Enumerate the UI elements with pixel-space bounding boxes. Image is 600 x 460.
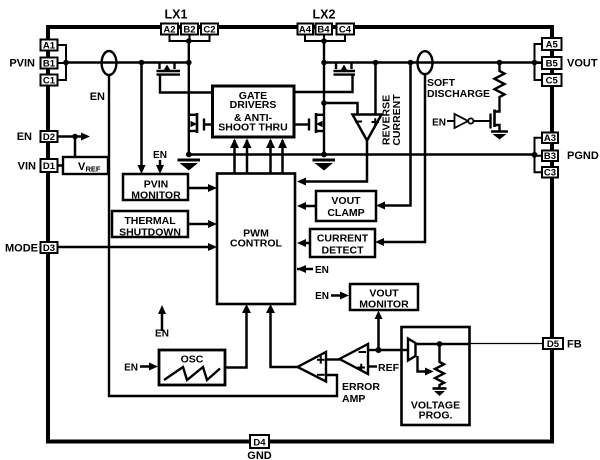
node LX1 bracket junction <box>186 38 192 44</box>
svg-text:DETECT: DETECT <box>322 245 365 257</box>
op-amp reverse current comparator <box>353 115 382 141</box>
block VREF <box>63 157 108 174</box>
arrow gate drive 4 <box>278 139 287 149</box>
arrow EN into PWM right <box>297 265 313 273</box>
inverter soft discharge <box>447 114 491 128</box>
wire LX1 vertical <box>188 41 190 155</box>
svg-text:LX1: LX1 <box>165 8 188 22</box>
wire into trapezoid <box>402 349 410 351</box>
node LX2 bracket junction <box>321 38 327 44</box>
node vout clamp tap <box>408 60 414 66</box>
arrow gate drive 3 <box>266 139 275 149</box>
ground LX1 <box>178 160 201 171</box>
wire gate drive 4 <box>281 140 284 174</box>
svg-text:B4: B4 <box>317 25 330 36</box>
wire PVIN monitor sense <box>140 63 143 169</box>
op-amp error amp stage2 <box>298 352 327 382</box>
svg-text:D4: D4 <box>253 437 266 448</box>
pin C2 <box>201 24 218 36</box>
svg-text:OSC: OSC <box>181 354 204 366</box>
node PGND bracket junction <box>532 152 538 158</box>
svg-text:C4: C4 <box>339 25 352 36</box>
svg-text:C2: C2 <box>203 25 215 36</box>
wire D2 EN <box>58 135 84 138</box>
arrow up into VOUT MONITOR <box>375 311 383 320</box>
wire LX2 to comparator minus <box>324 103 358 115</box>
wire OSC to PWM <box>225 308 247 368</box>
svg-text:C3: C3 <box>544 168 556 179</box>
bracket A3B3C3 <box>535 138 543 173</box>
node LX1 top junction <box>186 60 192 66</box>
wire stage1 minus input <box>368 349 379 351</box>
svg-text:D1: D1 <box>43 161 56 172</box>
arrow into PVIN MONITOR (sense) <box>138 165 146 174</box>
arrow EN into VOUT MONITOR <box>331 292 349 300</box>
svg-text:SHUTDOWN: SHUTDOWN <box>119 227 181 239</box>
bracket A2B2C2 <box>170 35 210 42</box>
svg-text:CONTROL: CONTROL <box>230 238 282 250</box>
svg-text:ERROR: ERROR <box>342 381 380 393</box>
pin D5 <box>543 338 563 350</box>
arrow PVIN MONITOR out <box>208 184 217 192</box>
svg-text:EN: EN <box>124 363 138 374</box>
svg-text:MONITOR: MONITOR <box>359 299 409 311</box>
svg-text:MODE: MODE <box>5 243 38 255</box>
svg-text:GND: GND <box>247 450 272 460</box>
svg-text:CLAMP: CLAMP <box>327 207 364 219</box>
wire trapezoid to resistor node <box>416 343 470 345</box>
wire gate drive 2 <box>246 140 249 174</box>
block VOLTAGE PROG <box>402 327 470 425</box>
arrow VOUT CLAMP out <box>297 202 306 210</box>
svg-text:EN: EN <box>315 291 329 302</box>
ground soft discharge <box>491 132 508 140</box>
wire vout clamp sense <box>380 63 411 206</box>
pin D4 <box>250 435 269 448</box>
bracket A1B1C1 <box>58 45 67 80</box>
transistor Q1 high-side phase1 <box>157 63 213 93</box>
transistor Q3 high-side phase2 <box>294 63 355 93</box>
wire hop ellipse current detect <box>418 51 433 74</box>
transistor Q5 soft discharge <box>491 99 500 131</box>
block PVIN MONITOR <box>123 174 188 202</box>
wire VOUT to comparator plus <box>374 63 377 116</box>
svg-text:D2: D2 <box>43 132 55 143</box>
node LX2 ground junction <box>321 152 327 158</box>
wire PVIN rail <box>66 61 189 64</box>
node PVIN monitor tap <box>139 60 145 66</box>
svg-text:B5: B5 <box>546 59 559 70</box>
pin B5 <box>542 57 562 70</box>
arrow gate drive 2 <box>243 139 252 149</box>
arrow EN right <box>81 133 90 141</box>
block VOUT MONITOR <box>350 284 418 311</box>
wire FB to VOUT MONITOR <box>377 315 380 350</box>
svg-text:EN: EN <box>315 265 329 276</box>
wire THERMAL to PWM <box>188 223 210 226</box>
svg-text:B3: B3 <box>544 151 556 162</box>
pin B1 <box>41 58 58 70</box>
arrow gate drive 1 <box>230 139 239 149</box>
pin A4 <box>298 24 314 36</box>
svg-text:A2: A2 <box>163 25 175 36</box>
svg-text:A3: A3 <box>544 133 556 144</box>
svg-text:CURRENT: CURRENT <box>391 94 403 146</box>
svg-text:FB: FB <box>567 339 582 351</box>
ground LX2 <box>313 160 336 171</box>
arrow EN into OSC <box>140 363 158 371</box>
svg-text:D5: D5 <box>547 339 560 350</box>
wire PVIN MONITOR to PWM <box>188 187 210 190</box>
svg-text:LX2: LX2 <box>313 8 336 22</box>
wire PGND bus <box>189 153 535 156</box>
svg-text:REF: REF <box>86 165 101 174</box>
svg-text:C1: C1 <box>43 76 56 87</box>
wire D2 to VREF <box>74 137 77 158</box>
wire VOUT CLAMP to PWM <box>300 205 316 208</box>
svg-text:AMP: AMP <box>342 393 365 405</box>
wire current detect sense <box>379 74 425 242</box>
arrow CURRENT DETECT out <box>297 239 306 247</box>
pin A5 <box>542 38 562 51</box>
wire comparator output to PWM <box>300 141 367 182</box>
svg-text:PROG.: PROG. <box>419 410 453 422</box>
pin A2 <box>161 24 178 36</box>
svg-text:PGND: PGND <box>567 150 599 162</box>
pin B2 <box>181 24 198 36</box>
pin D2 <box>41 131 58 143</box>
wire LX2 vertical <box>323 41 325 155</box>
svg-text:B1: B1 <box>43 59 56 70</box>
node resistor top <box>437 341 443 347</box>
svg-text:EN: EN <box>17 131 32 143</box>
transistor Q2 low-side phase1 <box>189 113 213 133</box>
svg-text:VIN: VIN <box>18 161 36 173</box>
block CURRENT DETECT <box>310 229 375 257</box>
block VOUT CLAMP <box>316 191 376 221</box>
pin D3 <box>41 242 58 254</box>
arrow reverse current into PWM <box>297 178 306 186</box>
wire MODE to PWM <box>58 246 211 249</box>
pin A3 <box>542 133 558 145</box>
op-amp error amp stage1 <box>340 344 369 374</box>
svg-text:EN: EN <box>153 150 167 161</box>
svg-text:EN: EN <box>432 118 446 129</box>
bracket A4B4C4 <box>305 35 345 42</box>
pin C5 <box>542 74 562 87</box>
chip outer border <box>48 27 552 442</box>
wire EN vertical long <box>109 75 337 396</box>
svg-text:DRIVERS: DRIVERS <box>230 99 277 111</box>
wire FB thin <box>470 343 544 345</box>
wire CURRENT DETECT to PWM <box>300 242 310 245</box>
block THERMAL SHUTDOWN <box>112 211 188 239</box>
svg-text:A1: A1 <box>43 41 56 52</box>
wire FB junction to voltage prog <box>379 349 410 351</box>
svg-text:DISCHARGE: DISCHARGE <box>427 88 490 100</box>
node reverse current + tap <box>373 60 379 66</box>
wire gate drive 3 <box>269 140 272 174</box>
pin D1 <box>41 159 58 172</box>
svg-text:SHOOT THRU: SHOOT THRU <box>218 122 287 134</box>
label SOFT DISCHARGE <box>427 77 490 100</box>
wire D1 to VREF <box>58 164 65 167</box>
wire hop ellipse EN <box>102 51 117 75</box>
ground voltage prog <box>433 389 447 397</box>
block OSC <box>159 350 225 385</box>
svg-text:EN: EN <box>155 329 169 340</box>
mux trapezoid voltage prog <box>408 339 416 361</box>
arrow error amp into PWM bottom <box>266 304 275 313</box>
label REVERSE CURRENT <box>381 94 404 146</box>
pin C1 <box>41 75 58 87</box>
arrow EN up standalone <box>158 305 166 331</box>
pin C3 <box>542 167 558 179</box>
pin A1 <box>41 40 58 52</box>
wire VOUT rail <box>324 61 542 64</box>
svg-text:VOUT: VOUT <box>567 58 598 70</box>
wire gate drive 1 <box>233 140 236 174</box>
node LX1 ground junction <box>186 152 192 158</box>
arrow OSC into PWM bottom <box>242 304 251 313</box>
svg-text:CURRENT: CURRENT <box>317 233 369 245</box>
wire stage1 to stage2 <box>326 358 340 360</box>
svg-text:A4: A4 <box>299 25 312 36</box>
node soft discharge tap <box>497 60 503 66</box>
svg-text:VOUT: VOUT <box>331 195 361 207</box>
node LX2 comparator tap <box>321 100 327 106</box>
arrow EN into PVIN MONITOR <box>156 160 164 174</box>
arrow MODE into PWM <box>208 243 217 251</box>
block PWM CONTROL <box>217 174 295 305</box>
svg-text:PVIN: PVIN <box>9 58 35 70</box>
pin B4 <box>316 24 333 36</box>
bracket A5B5C5 <box>535 44 543 80</box>
pin B3 <box>542 151 558 163</box>
label ERROR AMP <box>342 381 380 405</box>
svg-text:B2: B2 <box>183 25 195 36</box>
pin C4 <box>337 24 355 36</box>
wire REF input <box>368 365 377 367</box>
node PVIN-bracket junction <box>63 60 69 66</box>
arrow THERMAL out <box>208 220 217 228</box>
resistor voltage prog <box>435 344 444 388</box>
arrow into VOUT CLAMP <box>376 202 385 210</box>
node D2 junction <box>72 134 78 140</box>
svg-text:REF: REF <box>378 362 400 374</box>
arrow into CURRENT DETECT <box>375 238 384 246</box>
arrow program tap <box>418 356 434 376</box>
node FB junction <box>376 347 382 353</box>
block GATE DRIVERS <box>213 86 295 137</box>
svg-text:MONITOR: MONITOR <box>131 190 181 202</box>
resistor soft discharge <box>495 63 505 100</box>
node VOUT bracket junction <box>532 60 538 66</box>
svg-text:D3: D3 <box>43 243 55 254</box>
transistor Q4 low-side phase2 <box>294 113 324 133</box>
svg-text:A5: A5 <box>546 40 559 51</box>
svg-text:C5: C5 <box>546 76 559 87</box>
svg-text:EN: EN <box>90 91 105 103</box>
node LX2 rail junction <box>321 60 327 66</box>
wire stage2 output to PWM <box>271 308 298 367</box>
svg-text:THERMAL: THERMAL <box>124 215 176 227</box>
